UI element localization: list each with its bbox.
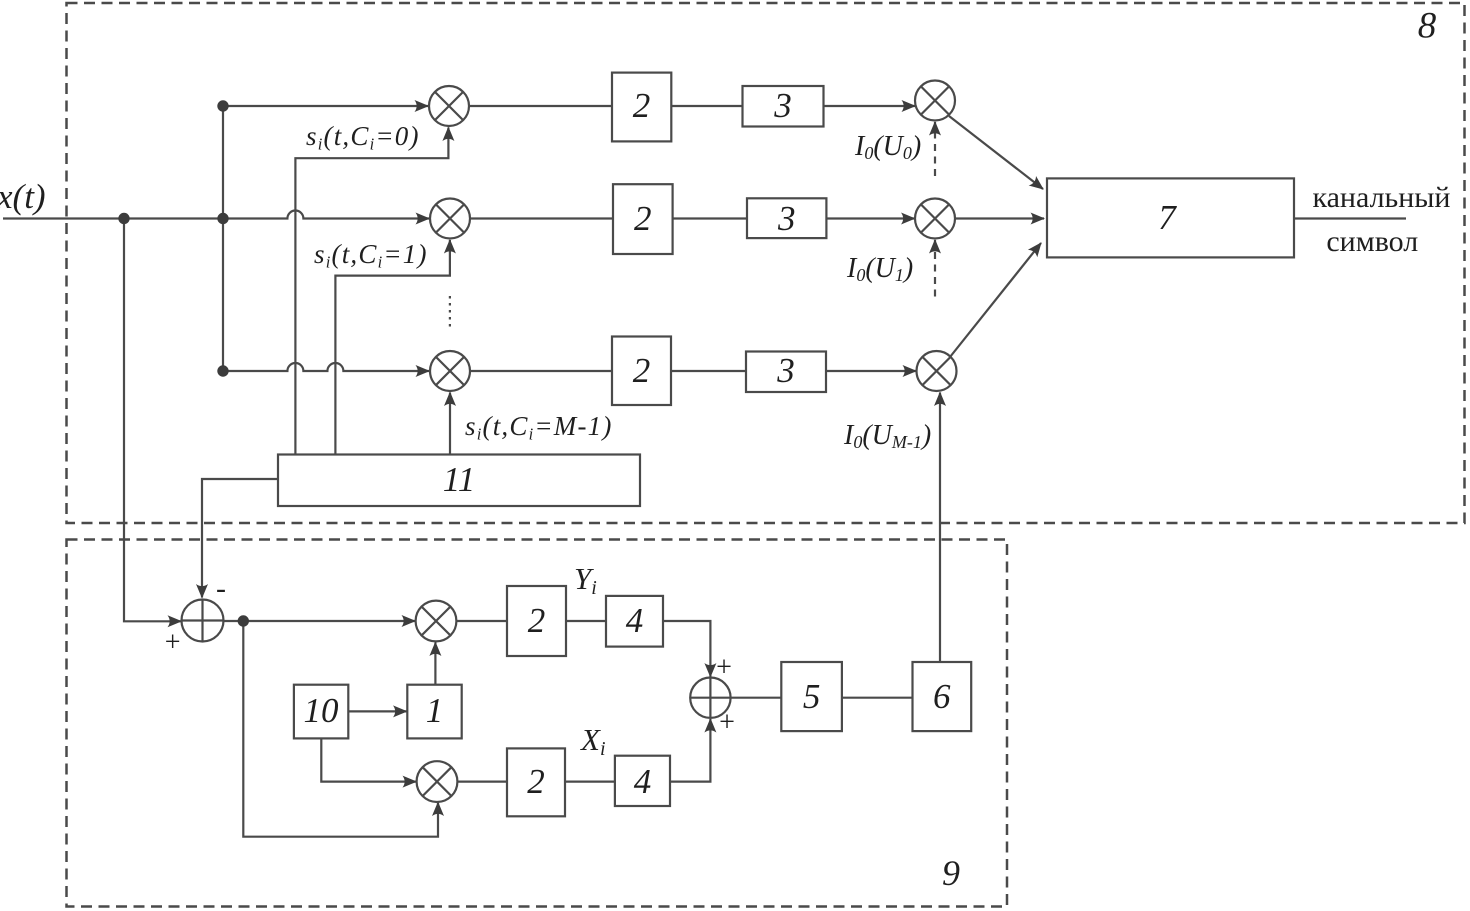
dashed frame 9 [67,540,1008,907]
wire output of block 7 [1294,217,1406,219]
svg-text:6: 6 [933,677,951,716]
wire block2 to block3 row2 [673,217,747,219]
node on x(t) trunk [217,213,228,224]
wire block3 row3 to multiplier M6 [826,370,916,372]
block 2 (Y path) [507,586,566,656]
wire feed s_i(t,Ci=0) from block 11 to M1 [295,128,448,455]
wire left drop from x(t) to adder A1 [124,219,181,622]
svg-text:+: + [165,627,181,658]
svg-text:8: 8 [1418,6,1437,47]
wire block 10 to block 1 [348,710,406,712]
wire M2 to block 2 row2 [470,217,613,219]
wire feed s_i(t,Ci=1) from block 11 to M2 [335,240,450,455]
block 4 (X path) [615,756,670,806]
block 2 row3 [612,337,671,406]
node row1 [217,100,228,111]
svg-text:si(t,Ci=M-1): si(t,Ci=M-1) [465,411,613,444]
adder A1 [182,600,224,642]
svg-text:1: 1 [426,691,444,730]
svg-text:2: 2 [527,762,545,801]
wire block 11 left output down to adder A1 [202,479,278,598]
wire block 6 up to multiplier M6 [939,393,941,663]
wire M1 to block 2 row1 [469,105,612,107]
wire block4X to adder A2 [670,719,710,782]
multiplier M5 [915,199,955,239]
vertical ellipsis dotted between M2 and M3 [449,296,451,331]
wire block2 to block3 row1 [671,105,742,107]
svg-text:2: 2 [528,601,546,640]
svg-text:10: 10 [304,691,340,730]
adder A2 [690,678,730,718]
svg-text:Yi: Yi [574,561,597,599]
svg-text:Xi: Xi [579,722,606,760]
svg-text:x(t): x(t) [0,177,46,216]
block 2 row2 [613,184,673,254]
block 2 (X path) [507,748,565,816]
block 2 row1 [612,73,671,142]
wire M5 to block 7 [955,217,1044,219]
dashed arrow I0(U0) into M4 [934,122,936,176]
block 3 row3 [746,352,826,393]
svg-text:9: 9 [942,853,960,893]
svg-text:4: 4 [626,601,644,640]
wire block 5 to block 6 [842,697,913,699]
wire M8 to block 2 (X) [457,780,507,782]
wire block2 to block3 row3 [671,370,746,372]
wire x(t) input with hop over feed line [3,211,429,219]
svg-text:4: 4 [634,762,652,801]
svg-text:канальный: канальный [1313,181,1451,214]
block 5 [781,662,842,731]
node after adder A1 [238,615,249,626]
block 7 [1047,178,1294,257]
svg-text:+: + [719,707,735,738]
node row3 [217,365,228,376]
wire adder A2 to block 5 [731,697,782,699]
multiplier M4 [915,81,955,121]
wire block4Y to adder A2 [663,621,710,677]
wire block3 row1 to multiplier M4 [824,105,916,107]
svg-text:si(t,Ci=0): si(t,Ci=0) [306,121,420,154]
svg-text:si(t,Ci=1): si(t,Ci=1) [314,239,428,272]
wire block 1 up to multiplier M7 [434,643,436,685]
multiplier M2 [430,199,470,239]
svg-text:2: 2 [633,351,651,390]
wire feedback drop from junction to multiplier M8 bottom [243,621,438,837]
svg-text:2: 2 [633,86,651,125]
dashed arrow I0(U1) into M5 [934,240,936,297]
wire row1 tap to multiplier M1 [223,105,428,107]
multiplier M1 [429,86,469,126]
block 6 [913,662,972,731]
multiplier M8 [417,761,458,802]
block 11 [278,455,640,507]
wire diagonal M6 to block 7 [950,243,1041,357]
junction dots [118,100,249,626]
svg-text:+: + [716,652,732,683]
wire diagonal M4 to block 7 [949,116,1043,189]
multiplier M7 [416,601,457,642]
wire block2X to block4X [565,780,615,782]
multiplier M6 [917,351,957,391]
svg-text:3: 3 [776,351,795,390]
wire adder A1 output to multiplier M7 [224,620,416,622]
svg-text:7: 7 [1158,198,1177,237]
block 10 [294,685,348,739]
wire block3 row2 to multiplier M5 [826,217,914,219]
block 4 (Y path) [606,596,663,647]
svg-text:3: 3 [773,86,792,125]
svg-text:I0(UM-1): I0(UM-1) [843,420,931,452]
wire M7 to block 2 (Y) [456,620,507,622]
svg-text:11: 11 [443,460,475,499]
wire M3 to block 2 row3 [470,370,612,372]
wire vertical trunk x=223 [222,106,224,371]
svg-text:I0(U1): I0(U1) [846,253,913,285]
svg-text:I0(U0): I0(U0) [854,131,921,163]
svg-text:символ: символ [1326,225,1418,258]
wire feed s_i(t,Ci=M-1) from block 11 to M3 [449,393,451,455]
block 1 [407,685,461,739]
node on x(t) at left drop [118,213,129,224]
multiplier M3 [430,351,470,391]
block 3 row1 [743,86,824,127]
svg-text:-: - [216,572,226,605]
wire block2Y to block4Y [566,620,606,622]
block 3 row2 [747,198,826,238]
svg-text:2: 2 [634,199,652,238]
svg-text:5: 5 [803,677,821,716]
wire row3 tap to multiplier M3 with two hops [223,363,429,371]
dashed frame 8 [67,3,1465,523]
svg-text:3: 3 [777,199,796,238]
wire block 10 down to multiplier M8 [321,738,416,781]
